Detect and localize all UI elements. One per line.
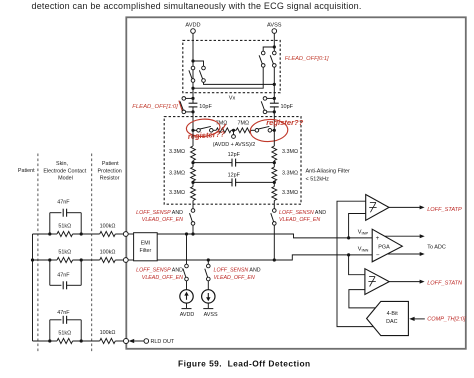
svg-text:register??: register?? xyxy=(266,118,303,127)
current source AVSS xyxy=(202,290,215,303)
svg-text:51kΩ: 51kΩ xyxy=(58,331,71,337)
terminal row2 at box edge xyxy=(123,258,128,263)
wire elbow to right switch xyxy=(193,61,204,66)
svg-text:Vx: Vx xyxy=(229,96,236,102)
junction row2 AVSS source branch xyxy=(207,258,210,261)
svg-text:100kΩ: 100kΩ xyxy=(100,330,116,336)
wire into AA box right xyxy=(273,112,275,130)
svg-text:LOFF_SENSN AND: LOFF_SENSN AND xyxy=(279,210,326,216)
switch AVDD source lever xyxy=(183,269,186,278)
svg-text:47nF: 47nF xyxy=(57,310,70,316)
junction left 12pF1 xyxy=(191,161,194,164)
svg-text:DAC: DAC xyxy=(386,319,397,325)
terminal row1 at box edge xyxy=(123,232,128,237)
junction left chain 7M row xyxy=(191,129,194,132)
hysteresis symbol P xyxy=(370,201,376,203)
hysteresis symbol N xyxy=(369,276,375,278)
wire RLD OUT xyxy=(133,340,144,342)
svg-text:VLEAD_OFF_EN: VLEAD_OFF_EN xyxy=(214,275,255,281)
bypass switch left contacts xyxy=(182,97,186,101)
wire switch to row1 xyxy=(192,225,194,234)
switch S2 lever xyxy=(199,70,202,79)
resistor 3.3M right 1 xyxy=(273,130,275,146)
wire PGA output upper xyxy=(385,235,421,237)
junction row1 right xyxy=(80,232,83,235)
svg-text:Figure 59. Lead-Off Detection: Figure 59. Lead-Off Detection xyxy=(178,359,311,369)
resistor 51k row3 xyxy=(57,338,73,343)
svg-text:detection can be accomplished: detection can be accomplished simultaneo… xyxy=(32,1,362,11)
switch S3 lever xyxy=(259,55,262,64)
svg-text:3.3MΩ: 3.3MΩ xyxy=(282,149,298,155)
svg-text:Filter: Filter xyxy=(140,248,152,254)
svg-text:12pF: 12pF xyxy=(228,152,241,158)
svg-text:47nF: 47nF xyxy=(57,199,70,205)
wire S4 bottom to node xyxy=(273,67,275,84)
svg-text:100kΩ: 100kΩ xyxy=(100,250,116,256)
svg-text:Model: Model xyxy=(58,176,73,182)
dashed box FLEAD_OFF switch matrix xyxy=(183,40,280,92)
junction row2 right xyxy=(80,258,83,261)
resistor 7M right xyxy=(236,128,251,133)
wire PGA output lower xyxy=(387,253,420,255)
junction row2 left xyxy=(48,258,51,261)
wire COMP_TH input xyxy=(414,318,425,320)
svg-text:3.3MΩ: 3.3MΩ xyxy=(282,190,298,196)
svg-text:Electrode Contact: Electrode Contact xyxy=(43,168,86,174)
svg-text:VLEAD_OFF_EN: VLEAD_OFF_EN xyxy=(142,275,183,281)
svg-text:VLEAD_OFF_EN: VLEAD_OFF_EN xyxy=(279,217,320,223)
svg-text:3.3MΩ: 3.3MΩ xyxy=(169,171,185,177)
switch AVSS source contacts xyxy=(207,264,211,268)
capacitor 12pF upper xyxy=(193,162,232,164)
switch S4 lever xyxy=(270,55,273,64)
wire comparator N output xyxy=(389,281,420,283)
svg-text:51kΩ: 51kΩ xyxy=(58,250,71,256)
op-amp PGA xyxy=(372,229,402,262)
svg-text:COMP_TH[2:0]: COMP_TH[2:0] xyxy=(427,316,466,322)
resistor 3.3M left 1 xyxy=(192,130,194,146)
wire V_INP to comparator P xyxy=(349,214,366,238)
wire below AVDD source xyxy=(186,303,188,308)
svg-text:Protection: Protection xyxy=(97,168,121,174)
wire switch to resistor xyxy=(213,129,216,131)
capacitor 47nF row1 xyxy=(50,212,62,214)
junction 10pF top left xyxy=(191,97,194,100)
junction right 12pF2 xyxy=(273,181,276,184)
svg-text:AVDD: AVDD xyxy=(185,22,200,28)
svg-text:LOFF_SENSN AND: LOFF_SENSN AND xyxy=(214,267,261,273)
junction left chain xyxy=(191,87,194,90)
wire bypass switch bottom right xyxy=(267,111,275,113)
svg-text:VINN: VINN xyxy=(358,247,369,253)
junction row3 right xyxy=(80,339,83,342)
svg-text:+: + xyxy=(376,235,380,242)
svg-text:AVSS: AVSS xyxy=(267,22,282,28)
svg-text:3.3MΩ: 3.3MΩ xyxy=(282,171,298,177)
wire switch to row2 crossing row1 xyxy=(273,225,275,260)
wire resistor to right switch xyxy=(251,129,255,131)
switch 7M right contacts xyxy=(255,129,259,133)
resistor 7M left xyxy=(216,128,231,133)
junction row1 AVDD source branch xyxy=(185,232,188,235)
annotation red check tick xyxy=(222,124,226,130)
junction on AVSS wire xyxy=(273,45,276,48)
wire bypass switch bottom xyxy=(186,111,193,113)
capacitor C 10pF left xyxy=(192,98,194,103)
resistor 51k row1 xyxy=(57,231,73,236)
wire row2 to AVSS switch xyxy=(207,260,209,264)
DAC 4-bit block xyxy=(367,301,409,335)
svg-text:51kΩ: 51kΩ xyxy=(58,224,71,230)
wire row2 (INN) xyxy=(157,255,372,260)
switch S3 contacts xyxy=(261,51,265,55)
wire switch to source xyxy=(207,281,209,290)
svg-text:Patient: Patient xyxy=(102,161,119,167)
junction 10pF top right xyxy=(273,97,276,100)
EMI filter box xyxy=(134,233,158,261)
svg-text:100kΩ: 100kΩ xyxy=(100,224,116,230)
terminal RLD OUT xyxy=(144,339,149,344)
annotation ellipse left xyxy=(186,118,221,138)
wire elbow to left switch xyxy=(263,47,274,51)
wire S1 bottom to node xyxy=(192,82,194,88)
svg-text:Anti-Aliasing Filter: Anti-Aliasing Filter xyxy=(306,169,350,175)
svg-text:7MΩ: 7MΩ xyxy=(216,121,228,127)
junction row3 left xyxy=(48,339,51,342)
bypass switch right contacts xyxy=(263,97,267,101)
svg-text:4-Bit: 4-Bit xyxy=(387,311,399,317)
junction row1 left xyxy=(48,232,51,235)
wire stub right switch top xyxy=(273,47,275,51)
wire AVDD down xyxy=(192,33,194,61)
dashed box anti-aliasing filter xyxy=(164,117,301,205)
svg-text:12pF: 12pF xyxy=(228,172,241,178)
current source AVDD xyxy=(180,290,193,303)
capacitor 12pF lower xyxy=(193,181,232,183)
capacitor C 10pF right xyxy=(273,98,275,103)
dashed separator 2 xyxy=(91,154,93,353)
wire row1 to AVDD switch (crosses row2) xyxy=(186,234,188,264)
junction on AVDD wire xyxy=(191,59,194,62)
wire left chain exits box xyxy=(192,88,194,98)
wire switch to source xyxy=(186,281,188,290)
wire S2 bottom elbow right xyxy=(204,82,275,84)
svg-text:10pF: 10pF xyxy=(199,104,212,110)
svg-text:7MΩ: 7MΩ xyxy=(238,121,250,127)
svg-text:LOFF_STATP: LOFF_STATP xyxy=(427,207,462,213)
junction bus row2 xyxy=(31,258,34,261)
wire V_INN to comparator N xyxy=(349,255,365,275)
resistor 3.3M left 3 xyxy=(192,182,194,186)
switch S1 contacts xyxy=(191,66,195,70)
wire stub left switch top xyxy=(192,61,194,66)
svg-text:LOFF_SENSP AND: LOFF_SENSP AND xyxy=(136,210,183,216)
svg-text:To ADC: To ADC xyxy=(427,245,446,251)
junction center tap xyxy=(232,129,235,132)
terminal RLD node on box edge xyxy=(124,339,129,344)
resistor 100k row2 xyxy=(100,257,116,262)
resistor 100k row3 xyxy=(100,338,116,343)
wire comparator N ref to DAC xyxy=(349,290,376,308)
dashed separator 1 xyxy=(37,154,39,353)
svg-text:47nF: 47nF xyxy=(57,273,70,279)
junction V_INN branch xyxy=(347,253,350,256)
bypass switch left lever xyxy=(180,101,183,110)
switch S1 (AVDD to INP chain) xyxy=(192,70,194,79)
wire to switch xyxy=(193,129,197,131)
svg-text:VLEAD_OFF_EN: VLEAD_OFF_EN xyxy=(142,217,183,223)
svg-text:AVDD: AVDD xyxy=(180,312,195,318)
switch chain-exit right contacts xyxy=(273,209,277,213)
wire switch to right chain xyxy=(272,129,275,131)
annotation red tick xyxy=(179,101,183,112)
svg-text:(AVDD + AVSS)/2: (AVDD + AVSS)/2 xyxy=(213,142,256,148)
wire below AVSS source xyxy=(207,303,209,308)
resistor 3.3M right 2 xyxy=(273,163,275,167)
svg-text:Skin,: Skin, xyxy=(56,161,68,167)
junction 10pF bottom left xyxy=(191,110,194,113)
wire row2 into EMI filter xyxy=(128,259,133,261)
wire right chain exits box xyxy=(273,84,275,98)
patient bus wire xyxy=(32,234,34,341)
switch S4 contacts xyxy=(273,51,277,55)
junction V_INP branch xyxy=(347,236,350,239)
svg-text:LOFF_SENSP AND: LOFF_SENSP AND xyxy=(136,267,183,273)
switch chain-exit right lever xyxy=(271,213,274,222)
wire row1 (INP) xyxy=(157,234,372,238)
svg-text:−: − xyxy=(376,252,380,259)
switch 7M left lever xyxy=(200,126,211,129)
junction left 12pF2 xyxy=(191,181,194,184)
electrode row row1 wire xyxy=(33,233,50,235)
switch AVSS source lever xyxy=(205,269,208,278)
svg-text:PGA: PGA xyxy=(378,244,390,250)
svg-text:Patient: Patient xyxy=(18,168,35,174)
capacitor 47nF row2 xyxy=(50,284,62,286)
junction 10pF bottom right xyxy=(273,110,276,113)
switch chain-exit left contacts xyxy=(191,209,195,213)
wire comparator P output xyxy=(389,206,421,208)
switch chain-exit left lever xyxy=(190,213,193,222)
svg-text:EMI: EMI xyxy=(141,241,150,247)
annotation ellipse right xyxy=(250,119,289,143)
wire into AA box left xyxy=(192,112,194,130)
svg-text:Resistor: Resistor xyxy=(100,176,120,182)
terminal AVSS xyxy=(272,29,277,34)
wire to center tap xyxy=(231,129,236,131)
junction row2 chain xyxy=(273,258,276,261)
outer device box xyxy=(126,17,466,349)
svg-text:AVSS: AVSS xyxy=(204,312,218,318)
resistor 100k row1 xyxy=(100,231,116,236)
wire DAC threshold bus xyxy=(337,201,373,326)
svg-text:3.3MΩ: 3.3MΩ xyxy=(169,190,185,196)
svg-text:10pF: 10pF xyxy=(281,104,294,110)
switch 7M right lever xyxy=(258,126,269,129)
junction right 12pF1 xyxy=(273,161,276,164)
junction right chain 7M row xyxy=(273,129,276,132)
svg-text:FLEAD_OFF[1:0]: FLEAD_OFF[1:0] xyxy=(132,104,178,110)
terminal center tap circle xyxy=(232,135,236,139)
svg-text:RLD OUT: RLD OUT xyxy=(151,339,175,345)
svg-text:3.3MΩ: 3.3MΩ xyxy=(169,149,185,155)
resistor 3.3M left 2 xyxy=(192,163,194,167)
junction row1 chain xyxy=(191,232,194,235)
svg-text:VINP: VINP xyxy=(358,229,369,235)
wire AVSS down xyxy=(273,33,275,47)
wire to bypass switch top right xyxy=(267,97,275,99)
resistor 3.3M right 3 xyxy=(273,182,275,186)
svg-text:LOFF_STATN: LOFF_STATN xyxy=(427,280,463,286)
switch S2 contacts xyxy=(202,66,206,70)
wire row1 into EMI filter xyxy=(128,233,133,235)
switch S1 lever xyxy=(189,70,192,79)
junction right chain xyxy=(273,83,276,86)
wire to bypass switch top xyxy=(186,97,193,99)
op-amp comparator N xyxy=(365,269,389,295)
svg-text:FLEAD_OFF[0:1]: FLEAD_OFF[0:1] xyxy=(285,56,329,62)
capacitor 47nF row3 xyxy=(50,319,62,321)
electrode row row3 wire xyxy=(33,340,50,342)
wire center tap stub xyxy=(233,130,235,134)
resistor 51k row2 xyxy=(57,257,73,262)
switch AVDD source contacts xyxy=(185,264,189,268)
wire cross-connect from AVSS switch xyxy=(193,67,263,88)
switch 7M left contacts xyxy=(197,129,201,133)
electrode row row2 wire xyxy=(33,259,50,261)
bypass switch right lever xyxy=(261,101,264,110)
op-amp comparator P xyxy=(366,195,389,221)
terminal AVDD xyxy=(191,29,196,34)
svg-text:< 512kHz: < 512kHz xyxy=(306,177,330,183)
